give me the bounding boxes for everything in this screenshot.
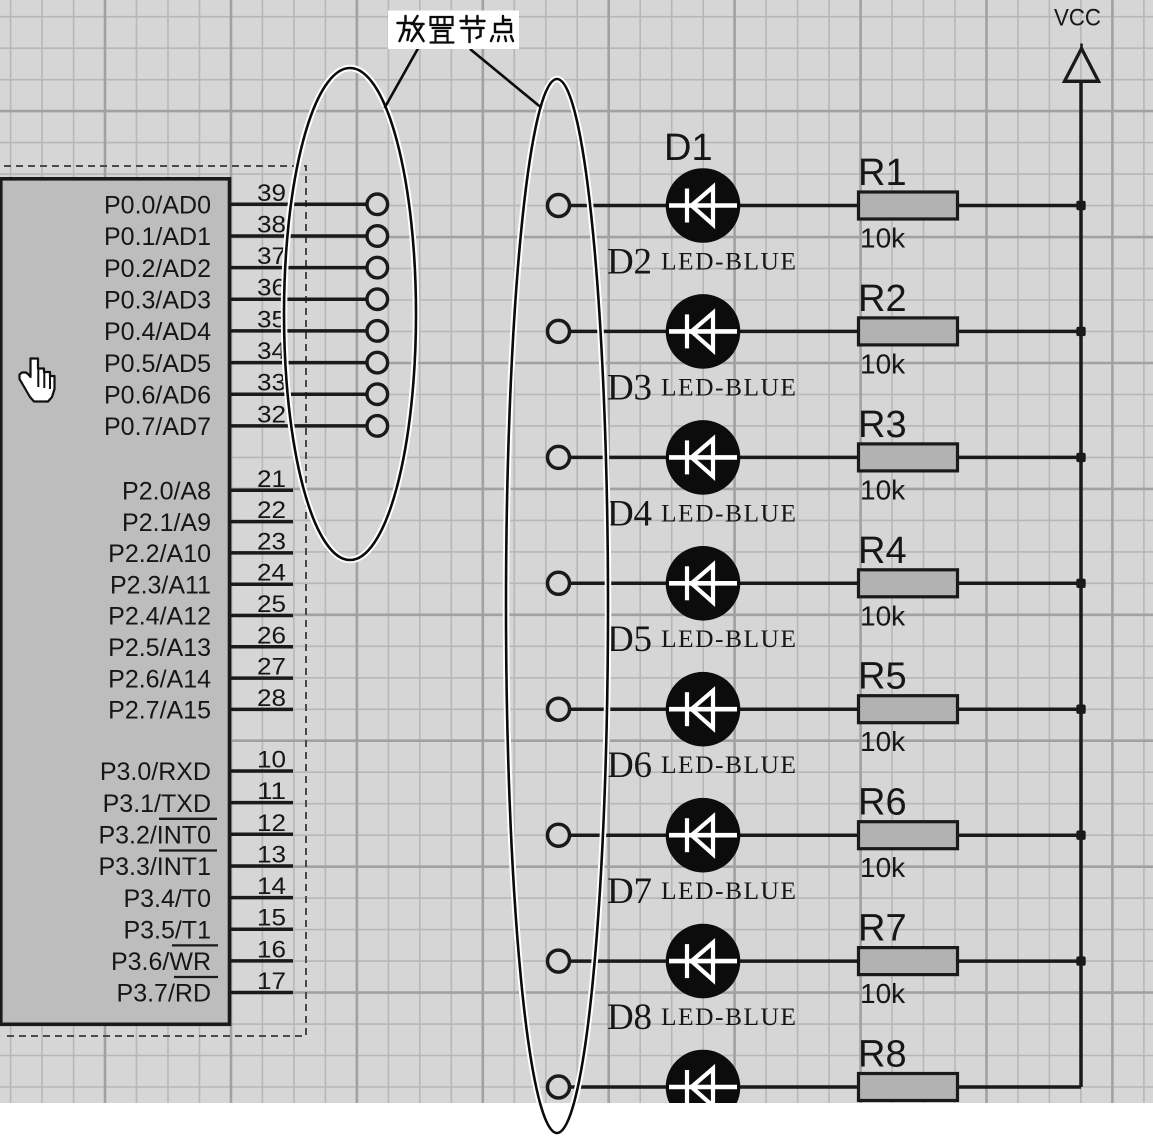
svg-text:LED-BLUE: LED-BLUE [661, 498, 796, 527]
wire row 4: node to LED D4 to resistor R4 to VCC rail [559, 582, 1082, 586]
mouse hand cursor [20, 359, 55, 402]
svg-text:P0.0/AD0: P0.0/AD0 [104, 192, 211, 220]
svg-text:28: 28 [257, 685, 286, 712]
svg-text:P0.1/AD1: P0.1/AD1 [104, 223, 211, 251]
svg-text:P2.4/A12: P2.4/A12 [108, 603, 211, 631]
svg-text:LED-BLUE: LED-BLUE [661, 876, 796, 905]
svg-text:11: 11 [257, 778, 286, 805]
pin P2.4/A12 (25) wire [108, 591, 293, 631]
svg-text:21: 21 [257, 466, 286, 493]
svg-text:P2.1/A9: P2.1/A9 [122, 509, 211, 537]
VCC power symbol (triangle) [1065, 44, 1099, 82]
svg-text:P3.1/TXD: P3.1/TXD [103, 790, 211, 818]
LED D8 (LED-BLUE) [666, 1050, 741, 1125]
svg-text:P3.6/WR: P3.6/WR [111, 948, 211, 976]
pin P2.6/A14 (27) wire [108, 654, 293, 694]
node circle row 6 [548, 824, 570, 846]
node circle on pin P0.7 [367, 416, 388, 437]
svg-text:33: 33 [257, 370, 286, 397]
VCC vertical rail wire [1079, 81, 1083, 1087]
svg-text:D3: D3 [607, 367, 652, 408]
pin P2.7/A15 (28) wire [108, 685, 293, 725]
node circle on pin P0.5 [367, 352, 388, 373]
node circle on pin P0.0 [367, 194, 388, 215]
node circle row 3 [548, 446, 570, 468]
pin P0.1/AD1 (38) wire [104, 212, 368, 252]
svg-text:LED-BLUE: LED-BLUE [661, 372, 796, 401]
pin P3.7/RD (17) wire [117, 968, 293, 1008]
resistor R5 body [859, 696, 958, 723]
svg-text:10k: 10k [860, 726, 906, 757]
svg-text:P0.6/AD6: P0.6/AD6 [104, 381, 211, 409]
resistor R4 body [859, 570, 958, 597]
junction dot row 5 on VCC rail [1076, 705, 1085, 714]
svg-text:12: 12 [257, 810, 286, 837]
svg-text:10k: 10k [860, 223, 906, 254]
pin P0.7/AD7 (32) wire [104, 401, 368, 441]
node circle row 8 [548, 1076, 570, 1098]
junction dot row 2 on VCC rail [1076, 327, 1085, 336]
selection dashed box around U1 [4, 166, 306, 1036]
wire row 6: node to LED D6 to resistor R6 to VCC rail [559, 833, 1082, 837]
svg-text:R7: R7 [858, 908, 907, 950]
svg-text:R4: R4 [858, 530, 907, 572]
svg-text:P0.4/AD4: P0.4/AD4 [104, 318, 211, 346]
junction dot row 7 on VCC rail [1076, 956, 1085, 965]
svg-text:32: 32 [257, 401, 286, 428]
svg-text:P3.5/T1: P3.5/T1 [123, 916, 211, 944]
svg-text:VCC: VCC [1054, 5, 1101, 32]
pin P3.1/TXD (11) wire [103, 778, 293, 818]
svg-text:P2.2/A10: P2.2/A10 [108, 540, 211, 568]
svg-text:P3.7/RD: P3.7/RD [117, 980, 211, 1008]
svg-text:P0.3/AD3: P0.3/AD3 [104, 286, 211, 314]
wire row 5: node to LED D5 to resistor R5 to VCC rail [559, 707, 1082, 711]
svg-text:R3: R3 [858, 404, 907, 446]
pin P0.5/AD5 (34) wire [104, 338, 368, 378]
chip U1 (8051 MCU body) [1, 179, 230, 1025]
resistor R8 body [859, 1074, 958, 1101]
svg-text:LED-BLUE: LED-BLUE [661, 1002, 796, 1031]
node circle on pin P0.2 [367, 257, 388, 278]
wire row 1: node to LED D1 to resistor R1 to VCC rail [559, 204, 1082, 208]
svg-text:R6: R6 [858, 782, 907, 824]
annotation ellipse around first node column [284, 68, 416, 560]
resistor R3 body [859, 444, 958, 471]
svg-text:P3.0/RXD: P3.0/RXD [100, 758, 211, 786]
leader line to first ellipse [385, 49, 419, 109]
svg-text:26: 26 [257, 622, 286, 649]
svg-text:P2.3/A11: P2.3/A11 [110, 571, 211, 599]
svg-text:R1: R1 [858, 152, 907, 194]
svg-text:22: 22 [257, 497, 286, 524]
svg-text:P3.2/INT0: P3.2/INT0 [98, 822, 211, 850]
wire row 8: node to LED D8 to resistor R8 to VCC rail [559, 1085, 1082, 1089]
node circle row 4 [548, 572, 570, 594]
wire row 3: node to LED D3 to resistor R3 to VCC rail [559, 456, 1082, 460]
LED D1 (LED-BLUE) [666, 168, 741, 243]
resistor R7 body [859, 948, 958, 975]
LED D5 (LED-BLUE) [666, 672, 741, 747]
LED D4 (LED-BLUE) [666, 546, 741, 621]
node circle on pin P0.4 [367, 321, 388, 342]
pin P3.0/RXD (10) wire [100, 747, 293, 787]
pin P3.6/WR (16) wire [111, 936, 293, 976]
pin P3.2/INT0 (12) wire [98, 810, 293, 850]
node circle row 2 [548, 320, 570, 342]
pin P2.3/A11 (24) wire [110, 560, 293, 600]
svg-text:16: 16 [257, 936, 286, 963]
svg-text:P0.5/AD5: P0.5/AD5 [104, 350, 211, 378]
svg-text:D5: D5 [607, 619, 652, 660]
svg-text:P3.3/INT1: P3.3/INT1 [98, 853, 211, 881]
pin P0.3/AD3 (36) wire [104, 275, 368, 315]
pin P2.1/A9 (22) wire [122, 497, 293, 537]
svg-text:P2.0/A8: P2.0/A8 [122, 478, 211, 506]
junction dot row 4 on VCC rail [1076, 579, 1085, 588]
svg-text:D1: D1 [664, 127, 713, 169]
pin P3.5/T1 (15) wire [123, 905, 293, 945]
svg-text:10: 10 [257, 747, 286, 774]
pin P2.0/A8 (21) wire [122, 466, 293, 506]
node circle row 5 [548, 698, 570, 720]
svg-text:P0.2/AD2: P0.2/AD2 [104, 255, 211, 283]
node circle on pin P0.1 [367, 226, 388, 247]
svg-text:10k: 10k [860, 474, 906, 505]
pin P2.2/A10 (23) wire [108, 528, 293, 568]
pin P0.6/AD6 (33) wire [104, 370, 368, 410]
svg-text:15: 15 [257, 905, 286, 932]
svg-text:P2.6/A14: P2.6/A14 [108, 665, 211, 693]
node circle on pin P0.3 [367, 289, 388, 310]
svg-text:P2.7/A15: P2.7/A15 [108, 697, 211, 725]
resistor R1 body [859, 192, 958, 219]
pin P3.4/T0 (14) wire [123, 873, 293, 913]
pin P0.0/AD0 (39) wire [104, 180, 368, 220]
svg-text:23: 23 [257, 528, 286, 555]
pin P2.5/A13 (26) wire [108, 622, 293, 662]
svg-text:24: 24 [257, 560, 286, 587]
svg-text:10k: 10k [860, 978, 906, 1009]
svg-text:LED-BLUE: LED-BLUE [661, 624, 796, 653]
svg-text:D7: D7 [607, 871, 652, 912]
junction dot row 1 on VCC rail [1076, 201, 1085, 210]
svg-text:P2.5/A13: P2.5/A13 [108, 634, 211, 662]
svg-text:LED-BLUE: LED-BLUE [661, 246, 796, 275]
node circle on pin P0.6 [367, 384, 388, 405]
pin P0.2/AD2 (37) wire [104, 243, 368, 283]
annotation text box 放置节点 [388, 11, 519, 50]
svg-text:37: 37 [257, 243, 286, 270]
LED D2 (LED-BLUE) [666, 294, 741, 369]
LED D3 (LED-BLUE) [666, 420, 741, 495]
LED D6 (LED-BLUE) [666, 798, 741, 873]
wire row 2: node to LED D2 to resistor R2 to VCC rail [559, 330, 1082, 334]
svg-text:LED-BLUE: LED-BLUE [661, 750, 796, 779]
svg-text:P3.4/T0: P3.4/T0 [123, 885, 211, 913]
svg-text:P0.7/AD7: P0.7/AD7 [104, 413, 211, 441]
pin P3.3/INT1 (13) wire [98, 842, 293, 882]
svg-text:R2: R2 [858, 278, 907, 320]
LED D7 (LED-BLUE) [666, 924, 741, 999]
svg-text:10k: 10k [860, 348, 906, 379]
node circle row 7 [548, 950, 570, 972]
svg-text:D6: D6 [607, 745, 652, 786]
node circle row 1 [548, 195, 570, 217]
svg-text:D2: D2 [607, 241, 652, 282]
svg-text:R5: R5 [858, 656, 907, 698]
resistor R2 body [859, 318, 958, 345]
junction dot row 3 on VCC rail [1076, 453, 1085, 462]
svg-text:13: 13 [257, 842, 286, 869]
leader line to second ellipse [470, 49, 541, 107]
svg-text:10k: 10k [860, 600, 906, 631]
svg-text:14: 14 [257, 873, 286, 900]
svg-text:25: 25 [257, 591, 286, 618]
junction dot row 6 on VCC rail [1076, 831, 1085, 840]
svg-text:D4: D4 [607, 493, 652, 534]
wire row 7: node to LED D7 to resistor R7 to VCC rail [559, 959, 1082, 963]
pin P0.4/AD4 (35) wire [104, 306, 368, 346]
svg-text:10k: 10k [860, 852, 906, 883]
svg-text:17: 17 [257, 968, 286, 995]
resistor R6 body [859, 822, 958, 849]
svg-text:38: 38 [257, 212, 286, 239]
svg-text:39: 39 [257, 180, 286, 207]
svg-text:D8: D8 [607, 997, 652, 1038]
svg-text:27: 27 [257, 654, 286, 681]
annotation ellipse around second node column [506, 79, 608, 1133]
svg-text:R8: R8 [858, 1034, 907, 1076]
